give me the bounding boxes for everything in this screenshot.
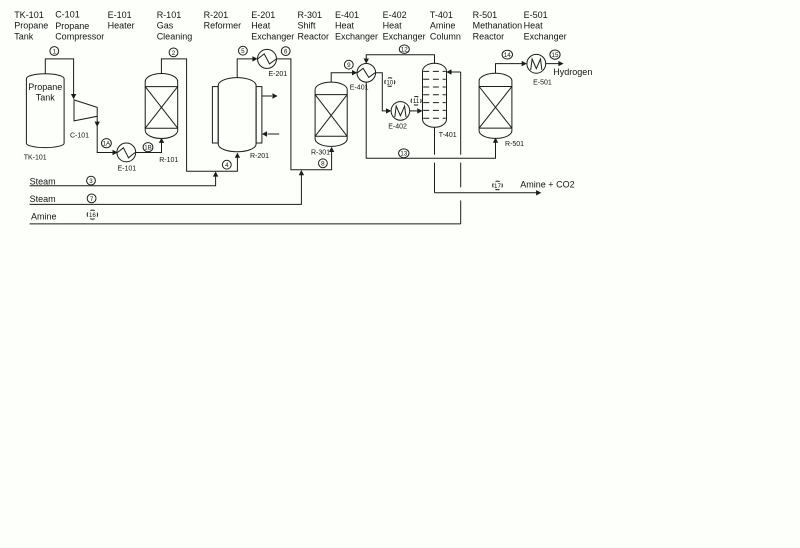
- title label E-402 Heat Exchanger: [383, 10, 426, 41]
- wire stream 5 R-201 to E-201: [237, 56, 257, 78]
- cooler E-501: [527, 54, 552, 86]
- reformer R-201: [212, 78, 279, 160]
- wire stream 14 R-501 to E-501: [496, 61, 527, 74]
- svg-text:1B: 1B: [144, 145, 152, 152]
- title label E-401 Heat Exchanger: [335, 10, 378, 41]
- svg-text:E-501: E-501: [533, 79, 552, 86]
- wire stream 10 E-401 to E-402: [376, 73, 392, 114]
- svg-text:C-101: C-101: [70, 132, 89, 139]
- wire stream 11 E-402 to T-401: [410, 108, 423, 113]
- shift reactor R-301: [311, 82, 347, 156]
- title label E-501 Heat Exchanger: [524, 10, 567, 41]
- svg-text:T-401: T-401: [439, 132, 457, 139]
- node 15 stream circle: [550, 50, 560, 59]
- svg-text:Steam: Steam: [30, 176, 56, 186]
- svg-text:12: 12: [401, 47, 408, 54]
- heat exchanger E-101: [117, 143, 136, 172]
- compressor C-101: [70, 100, 97, 139]
- svg-text:E-101: E-101: [118, 165, 137, 172]
- node 14 stream circle: [502, 50, 512, 59]
- svg-text:C-101: C-101: [55, 10, 80, 20]
- svg-text:Reactor: Reactor: [473, 31, 505, 41]
- svg-text:R-501: R-501: [473, 10, 498, 20]
- wire stream 12 T-401 overhead to E-401: [364, 55, 435, 64]
- vessel R-101: [145, 74, 178, 165]
- svg-text:Propane: Propane: [28, 82, 62, 92]
- cooler E-402: [388, 102, 410, 131]
- svg-text:R-501: R-501: [505, 141, 524, 148]
- svg-text:Shift: Shift: [298, 21, 317, 31]
- svg-text:Heat: Heat: [251, 21, 271, 31]
- svg-text:Steam: Steam: [30, 194, 56, 204]
- node 6 stream circle: [281, 47, 290, 56]
- svg-text:8: 8: [321, 161, 325, 168]
- node 2 stream circle: [169, 48, 178, 57]
- svg-text:1: 1: [53, 48, 57, 55]
- svg-text:Hydrogen: Hydrogen: [553, 67, 592, 77]
- svg-text:E-201: E-201: [269, 71, 288, 78]
- node 3 stream circle: [87, 176, 96, 185]
- svg-text:E-101: E-101: [108, 10, 132, 20]
- wire stream 15 hydrogen product: [546, 61, 593, 77]
- svg-text:Heat: Heat: [335, 21, 355, 31]
- svg-text:4: 4: [225, 162, 229, 169]
- svg-text:11: 11: [413, 98, 420, 105]
- svg-text:Gas: Gas: [157, 21, 174, 31]
- svg-text:3: 3: [89, 178, 93, 185]
- title label TK-101 Propane Tank: [14, 10, 48, 41]
- node 5 stream circle: [239, 46, 248, 55]
- svg-text:Exchanger: Exchanger: [251, 31, 294, 41]
- svg-text:2: 2: [172, 50, 176, 57]
- wire compressor outlet to E-101: [95, 116, 118, 155]
- node 10 stream circle dashed: [385, 78, 395, 87]
- svg-text:Amine: Amine: [31, 211, 57, 221]
- wire stream 6 E-201 to R-301 feed: [277, 59, 335, 170]
- svg-text:Propane: Propane: [55, 21, 89, 31]
- svg-text:Tank: Tank: [36, 93, 56, 103]
- svg-text:R-101: R-101: [157, 10, 182, 20]
- svg-text:Propane: Propane: [14, 21, 48, 31]
- svg-text:R-301: R-301: [311, 149, 330, 156]
- svg-text:7: 7: [90, 196, 94, 203]
- wire stream 13 E-401 to R-501 feed: [366, 82, 498, 158]
- svg-text:Reactor: Reactor: [298, 31, 330, 41]
- svg-text:R-201: R-201: [204, 10, 229, 20]
- svg-text:R-301: R-301: [298, 10, 323, 20]
- methanation reactor R-501: [479, 73, 524, 148]
- svg-text:Exchanger: Exchanger: [524, 31, 567, 41]
- svg-text:Column: Column: [430, 31, 461, 41]
- svg-text:E-501: E-501: [524, 10, 548, 20]
- node 16 stream circle dashed: [87, 210, 97, 219]
- svg-text:9: 9: [347, 62, 351, 69]
- heat exchanger E-201: [258, 49, 288, 78]
- svg-text:13: 13: [400, 151, 407, 158]
- svg-text:E-201: E-201: [251, 10, 275, 20]
- wire steam feed stream 7: [30, 170, 305, 204]
- svg-text:Amine: Amine: [430, 21, 456, 31]
- svg-text:Compressor: Compressor: [55, 31, 104, 41]
- title label R-301 Shift Reactor: [298, 10, 330, 41]
- svg-text:Exchanger: Exchanger: [383, 31, 426, 41]
- svg-text:E-401: E-401: [335, 10, 359, 20]
- svg-text:E-402: E-402: [388, 123, 407, 130]
- svg-text:16: 16: [89, 212, 96, 219]
- node 11 stream circle dashed: [411, 97, 421, 106]
- svg-text:Exchanger: Exchanger: [335, 31, 378, 41]
- svg-text:R-101: R-101: [159, 157, 178, 164]
- svg-text:TK-101: TK-101: [24, 155, 47, 162]
- svg-text:T-401: T-401: [430, 10, 453, 20]
- title label E-201 Heat Exchanger: [251, 10, 294, 41]
- svg-text:Reformer: Reformer: [204, 21, 242, 31]
- svg-text:Heat: Heat: [524, 21, 544, 31]
- node 1B stream circle: [143, 143, 153, 152]
- svg-text:Tank: Tank: [14, 31, 34, 41]
- svg-text:14: 14: [504, 52, 511, 59]
- node 17 stream circle dashed: [493, 181, 503, 190]
- node 13 stream circle: [399, 149, 409, 158]
- node 7 stream circle: [87, 194, 96, 203]
- title label T-401 Amine Column: [430, 10, 461, 41]
- wire steam feed stream 3: [30, 171, 219, 186]
- svg-text:5: 5: [241, 48, 245, 55]
- amine column T-401: [423, 63, 457, 139]
- wire stream 2 R-101 to R-201 feed: [161, 59, 240, 171]
- svg-text:17: 17: [494, 183, 501, 190]
- title label R-101 Gas Cleaning: [157, 10, 193, 41]
- node 1A stream circle: [102, 139, 112, 148]
- wire amine feed stream 16: [30, 69, 461, 224]
- svg-text:Heater: Heater: [108, 21, 135, 31]
- propane tank TK-101: [24, 74, 64, 162]
- svg-text:10: 10: [386, 80, 393, 87]
- node 12 stream circle: [399, 45, 409, 54]
- svg-text:Cleaning: Cleaning: [157, 31, 193, 41]
- wire stream 1 tank to compressor: [45, 59, 76, 99]
- svg-text:Amine + CO2: Amine + CO2: [520, 180, 574, 190]
- svg-text:15: 15: [552, 52, 559, 59]
- svg-text:E-402: E-402: [383, 10, 407, 20]
- svg-text:Methanation: Methanation: [473, 21, 523, 31]
- svg-text:R-201: R-201: [250, 153, 269, 160]
- svg-text:Heat: Heat: [383, 21, 403, 31]
- node 8 stream circle: [319, 159, 328, 168]
- heat exchanger E-401: [350, 64, 376, 92]
- title label R-201 Reformer: [204, 10, 242, 31]
- node 9 stream circle: [344, 60, 353, 69]
- svg-text:6: 6: [284, 49, 288, 56]
- title label E-101 Heater: [108, 10, 135, 31]
- title label C-101 Propane Compressor: [55, 10, 104, 42]
- wire stream 9 R-301 to E-401: [331, 70, 357, 83]
- wire stream 1B E-101 to R-101: [135, 138, 164, 153]
- node 4 stream circle: [222, 160, 231, 169]
- wire stream 17 T-401 bottoms to amine+CO2 out: [435, 128, 575, 196]
- svg-text:TK-101: TK-101: [14, 10, 44, 20]
- svg-text:1A: 1A: [103, 141, 111, 148]
- node 1 stream circle: [50, 47, 59, 56]
- title label R-501 Methanation Reactor: [473, 10, 523, 41]
